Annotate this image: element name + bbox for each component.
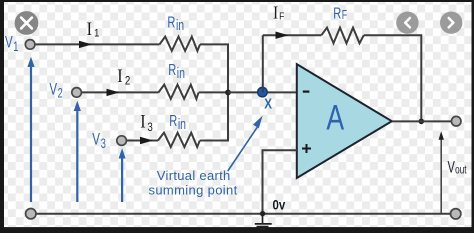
resistor Rin (branch 3)	[158, 133, 200, 147]
svg-text:A: A	[326, 98, 344, 137]
ground symbol	[255, 214, 272, 229]
junction at op-amp output	[419, 119, 425, 125]
wire branch 1 resistor to bus corner	[200, 44, 228, 92]
wire non-inverting input to ground rail	[263, 150, 297, 214]
svg-text:0v: 0v	[273, 198, 286, 213]
op-amp plus sign	[302, 144, 311, 153]
input terminal V1	[25, 40, 35, 50]
op-amp A	[297, 64, 392, 178]
svg-text:X: X	[264, 95, 272, 112]
input terminal V2	[72, 88, 82, 98]
wire branch 3 from V3 terminal to resistor	[126, 140, 158, 142]
output measurement arrow Vout	[440, 139, 442, 214]
input terminal V3	[117, 136, 127, 146]
svg-text:summing point: summing point	[149, 182, 238, 197]
junction on summing bus	[225, 90, 231, 96]
op-amp minus sign	[303, 90, 310, 92]
wire bottom 0v rail	[35, 213, 451, 215]
terminal bottom left	[26, 209, 36, 219]
next button	[440, 12, 462, 34]
current arrow I2	[107, 89, 120, 96]
terminal bottom right	[451, 209, 461, 219]
prev button	[396, 12, 418, 34]
wire branch 2 resistor to bus junction	[199, 91, 228, 93]
wire branch 3 resistor to bus corner	[200, 92, 228, 140]
current arrow IF	[276, 32, 289, 39]
wire top feedback rail	[263, 35, 422, 121]
wire op-amp output to output terminal	[392, 120, 452, 122]
junction at ground	[260, 211, 265, 216]
svg-text:Virtual earth: Virtual earth	[157, 168, 231, 183]
wire feedback riser from node x to top rail	[262, 35, 264, 92]
resistor Rin (branch 1)	[160, 37, 201, 51]
source arrow V3	[121, 158, 123, 203]
svg-text:Rin: Rin	[167, 14, 184, 34]
wire bus junction to op-amp inverting input	[228, 91, 297, 93]
resistor RF	[321, 28, 363, 44]
close button	[15, 11, 39, 35]
source arrow V2	[76, 110, 78, 202]
annotation pointer arrow to node x	[228, 127, 257, 171]
resistor Rin (branch 2)	[159, 85, 199, 99]
current arrow I3	[140, 137, 153, 144]
wire branch 1 from V1 terminal to resistor	[35, 43, 160, 45]
node x (virtual earth summing point)	[258, 87, 268, 97]
source arrow V1	[30, 66, 32, 202]
current arrow I1	[79, 41, 92, 48]
wire branch 2 from V2 terminal to resistor	[82, 91, 159, 93]
output terminal	[451, 116, 461, 126]
